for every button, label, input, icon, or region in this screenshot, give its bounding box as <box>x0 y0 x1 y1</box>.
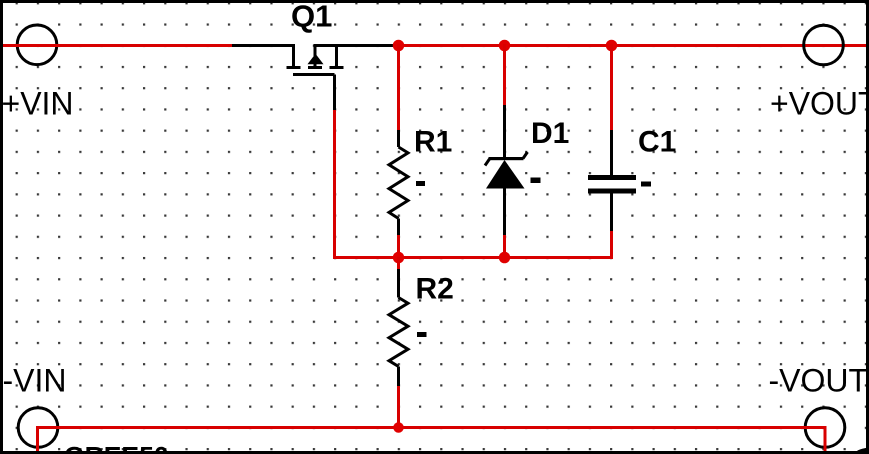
zener diode D1 <box>485 105 528 235</box>
junction dot: R2/bottom rail <box>393 422 404 433</box>
svg-text:D1: D1 <box>531 117 569 150</box>
wire: bottom-left red drop <box>36 426 39 454</box>
clipped blob bottom right <box>854 448 869 454</box>
resistor R2 <box>389 268 408 386</box>
wire: top red bus to +VOUT <box>399 44 869 47</box>
svg-text:Q1: Q1 <box>291 0 332 34</box>
wire: feedback bus red <box>333 256 613 259</box>
svg-text:+VOUT: +VOUT <box>770 86 869 122</box>
svg-text:-VIN: -VIN <box>3 363 67 399</box>
port -VOUT circle <box>805 408 845 448</box>
svg-text:R1: R1 <box>414 126 452 159</box>
wire: bottom-right red drop <box>824 426 827 454</box>
wire: +VIN red segment <box>0 44 232 47</box>
port -VIN circle <box>18 408 58 448</box>
wire: bottom red rail <box>36 426 826 429</box>
R2 value dash <box>417 332 427 337</box>
junction dot: D1 node <box>499 252 511 264</box>
svg-text:R2: R2 <box>416 273 454 306</box>
transistor Q1 (P-MOSFET) <box>287 44 344 110</box>
wire: R2 top red lead <box>397 257 400 269</box>
capacitor C1 <box>588 130 636 231</box>
wire: Q1 drain to node A (black) <box>337 44 399 47</box>
port +VOUT circle <box>804 25 844 65</box>
C1 value dash <box>641 182 651 187</box>
wire: R1 top red lead <box>397 44 400 130</box>
svg-text:-VOUT: -VOUT <box>769 363 869 399</box>
wire: C1 top red lead <box>610 44 613 130</box>
wire: C1 bottom red lead <box>610 231 613 259</box>
junction dot: R1/R2 node <box>393 252 405 264</box>
port +VIN circle <box>17 25 57 65</box>
svg-text:+VIN: +VIN <box>2 86 74 122</box>
node B junction dot <box>499 40 511 52</box>
wire: black segment to Q1 source <box>232 44 294 47</box>
resistor R1 <box>389 130 408 235</box>
wire: R1 bottom red lead <box>397 235 400 259</box>
wire: Q1 gate lead red <box>333 110 336 259</box>
node A junction dot <box>393 40 405 52</box>
svg-text:C1: C1 <box>638 126 676 159</box>
D1 value dash <box>531 178 541 184</box>
wire: D1 bottom red lead <box>503 235 506 259</box>
wire: D1 top red lead <box>503 44 506 105</box>
R1 value dash <box>416 181 425 186</box>
node C junction dot <box>606 40 618 52</box>
wire: R2 bottom red lead <box>397 386 400 429</box>
